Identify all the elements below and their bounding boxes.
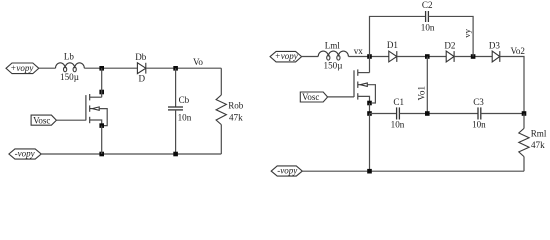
body arrow: [90, 108, 93, 110]
wire Vosc to gate: [56, 119, 86, 121]
diode D1: [389, 51, 397, 62]
junction Vo1 middle row: [425, 111, 430, 116]
svg-text:Vo1: Vo1: [417, 86, 427, 101]
source pin square Q1: [99, 123, 104, 128]
wire D2 to vy node: [454, 56, 492, 58]
channel tick drain: [89, 94, 91, 100]
diode D3: [492, 51, 500, 62]
channel tick source: [357, 93, 359, 99]
port Vosc (right circuit): [300, 92, 327, 102]
wire Vosc to gate (right): [328, 96, 354, 98]
wire Db to node Vo: [146, 67, 222, 69]
wire C2 to vy column: [428, 16, 473, 56]
wire source down to middle row: [369, 103, 371, 114]
wire drain to vx: [369, 57, 371, 73]
wire D1 to Vo1 node: [397, 56, 446, 58]
wire C1 to C3: [399, 113, 478, 115]
capacitor Cb: [168, 68, 183, 154]
junction D2-D3 (vy column): [471, 54, 476, 59]
drain pin square Q1: [99, 90, 104, 95]
svg-text:D3: D3: [489, 40, 501, 50]
svg-text:47k: 47k: [531, 140, 545, 150]
resistor Rml: [519, 114, 529, 172]
gate bar: [85, 95, 87, 120]
wire vx up to top loop: [370, 16, 426, 56]
svg-text:D2: D2: [444, 40, 456, 50]
wire middle row to C1: [370, 113, 397, 115]
svg-text:Rml: Rml: [531, 128, 547, 138]
wire source to bottom rail: [101, 126, 103, 154]
wire drain to top rail: [101, 68, 103, 97]
mosfet Q2 (right circuit): [354, 69, 375, 103]
port +vopy (left circuit): [6, 63, 39, 74]
drain stub: [90, 96, 102, 98]
junction Cb tap on top rail: [173, 66, 178, 71]
svg-text:C2: C2: [422, 0, 433, 10]
inductor Lml: [318, 51, 348, 60]
port -vopy (right circuit): [271, 166, 302, 177]
svg-text:+vopy: +vopy: [275, 51, 298, 61]
bottom rail wire (right circuit): [302, 170, 524, 172]
svg-text:Db: Db: [135, 52, 147, 62]
wire middle row down to bottom rail: [369, 114, 371, 172]
svg-text:150µ: 150µ: [324, 61, 343, 71]
capacitor C2: [426, 11, 429, 22]
mosfet Q1 (left circuit): [86, 94, 107, 126]
port Vosc (left circuit): [31, 115, 56, 125]
capacitor C3: [478, 107, 481, 119]
capacitor C1: [397, 107, 400, 119]
junction source at bottom rail: [99, 152, 104, 157]
svg-text:Rob: Rob: [228, 100, 244, 110]
body wire: [367, 85, 375, 103]
wire Lml to vx node: [348, 56, 388, 58]
svg-text:vy: vy: [462, 28, 472, 37]
svg-text:-vopy: -vopy: [15, 149, 35, 159]
junction drain node on top rail: [99, 66, 104, 71]
port -vopy (left circuit): [9, 149, 41, 160]
channel tick drain: [357, 69, 359, 75]
svg-text:Vo2: Vo2: [510, 46, 525, 56]
source stub: [358, 96, 370, 103]
svg-text:C3: C3: [473, 97, 484, 107]
svg-text:C1: C1: [393, 97, 404, 107]
svg-text:Cb: Cb: [179, 95, 190, 105]
channel tick source: [89, 117, 91, 123]
svg-text:Vo: Vo: [193, 57, 203, 67]
svg-text:Lb: Lb: [64, 52, 75, 62]
drain stub: [358, 72, 370, 74]
svg-text:Lml: Lml: [325, 41, 341, 51]
svg-text:Vosc: Vosc: [302, 92, 319, 102]
svg-text:150µ: 150µ: [60, 72, 79, 82]
resistor Rob: [216, 95, 226, 125]
svg-text:D1: D1: [387, 40, 398, 50]
wire +vopy to Lb: [39, 67, 56, 69]
svg-text:-vopy: -vopy: [277, 166, 297, 176]
svg-text:Vosc: Vosc: [33, 115, 50, 125]
wire Vo1 column down: [426, 57, 428, 114]
body arrow: [358, 84, 361, 86]
junction source column at bottom rail: [367, 169, 372, 174]
svg-text:10n: 10n: [178, 113, 192, 123]
wire Rob bottom to rail corner: [220, 125, 222, 154]
svg-text:D: D: [139, 73, 146, 83]
svg-text:+vopy: +vopy: [10, 63, 33, 73]
source stub: [90, 120, 102, 126]
junction D1-D2 (Vo1 column): [425, 54, 430, 59]
channel tick body: [357, 82, 359, 88]
junction Cb at bottom rail: [173, 152, 178, 157]
source pin square Q2: [367, 101, 372, 106]
svg-text:vx: vx: [354, 46, 364, 56]
wire +vopy to Lml: [302, 56, 319, 58]
diode Db: [137, 63, 145, 74]
junction vx: [367, 54, 372, 59]
body wire: [99, 109, 107, 126]
svg-text:10n: 10n: [421, 23, 435, 33]
wire D3 to Vo2 corner and down: [500, 57, 524, 114]
port +vopy (right circuit): [270, 51, 302, 62]
wire Lb to drain node: [84, 67, 137, 69]
bottom rail wire (left circuit): [41, 153, 221, 155]
junction C3 / Vo2 column: [522, 111, 527, 116]
wire C3 to Vo2 column: [481, 113, 524, 115]
svg-text:47k: 47k: [229, 113, 243, 123]
junction source / middle row: [367, 111, 372, 116]
wire Vo corner down to Rob: [220, 68, 222, 95]
diode D2: [446, 51, 454, 62]
svg-text:10n: 10n: [391, 119, 405, 129]
channel tick body: [89, 105, 91, 111]
gate bar: [353, 70, 355, 97]
inductor Lb: [56, 63, 85, 72]
svg-text:10n: 10n: [472, 119, 486, 129]
